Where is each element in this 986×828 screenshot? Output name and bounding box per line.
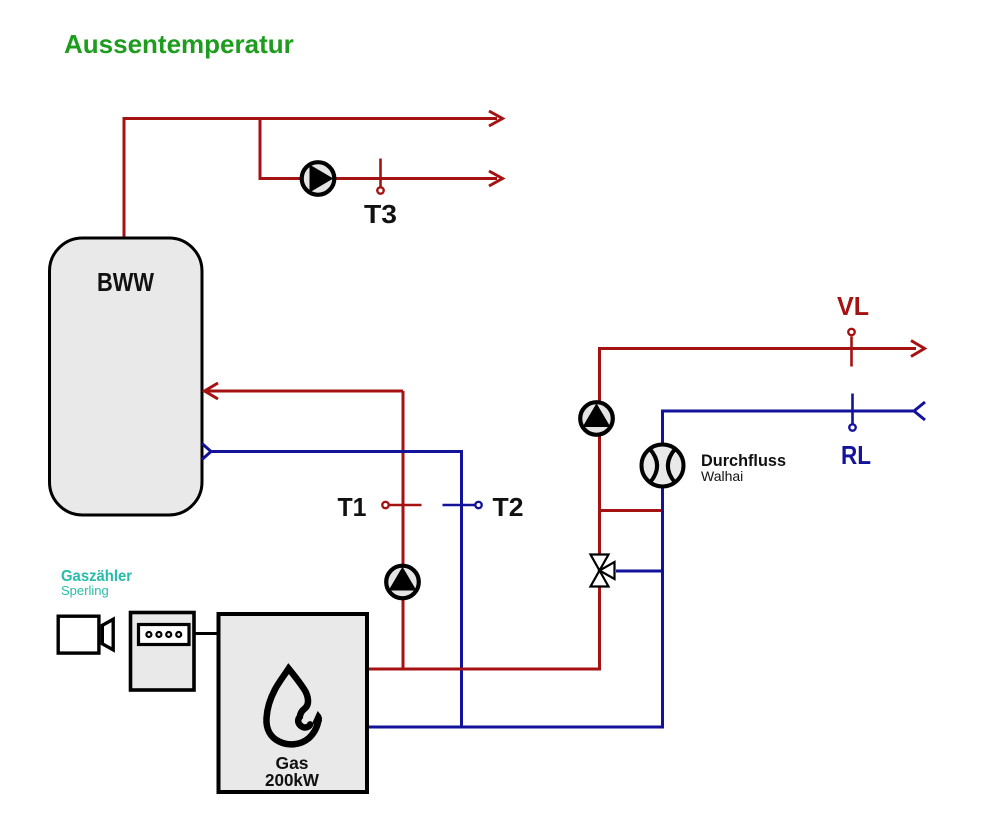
wire: gas meter to boiler: [194, 632, 218, 635]
svg-text:T3: T3: [364, 199, 397, 229]
svg-text:RL: RL: [841, 440, 871, 470]
wire: tank charge line (red into tank): [205, 390, 403, 393]
flame cusp: [313, 711, 322, 726]
camera icon: [58, 616, 113, 653]
svg-text:Sperling: Sperling: [61, 583, 109, 598]
valve V1 three-way: [591, 555, 615, 587]
pump P3 on second supply: [302, 162, 335, 195]
arrow: into tank: [205, 383, 219, 399]
arrow: second supply right: [489, 171, 503, 186]
arrow: top supply right: [489, 111, 503, 126]
wire: return RL line: [367, 411, 915, 727]
pump P2 on boiler riser: [580, 402, 613, 435]
sensor T2: [443, 502, 482, 508]
svg-text:Aussentemperatur: Aussentemperatur: [64, 29, 294, 59]
wire: valve stub blue: [616, 570, 663, 573]
arrow: RL fletch: [914, 402, 925, 420]
sensor T3: [377, 159, 383, 194]
wire: tank return (blue out of tank): [212, 452, 462, 728]
svg-text:BWW: BWW: [97, 267, 154, 297]
sensor VL: [848, 329, 854, 367]
wire: boiler supply bottom + riser + VL line: [367, 349, 916, 670]
pump P1 on red riser: [386, 566, 419, 599]
wire: BWW top supply pipe: [124, 119, 497, 239]
wire: branch to second supply: [260, 119, 497, 179]
svg-text:Walhai: Walhai: [701, 468, 743, 484]
svg-text:VL: VL: [837, 291, 869, 321]
sensor RL: [849, 394, 855, 431]
flame icon: [266, 669, 318, 745]
sensor T1: [382, 502, 421, 508]
flow meter Durchfluss: [642, 445, 684, 487]
svg-text:200kW: 200kW: [265, 770, 319, 790]
arrow: VL right: [911, 341, 925, 357]
arrow: out of tank: [202, 444, 211, 460]
svg-text:T2: T2: [493, 492, 524, 522]
wire: red riser from boiler to tank: [402, 391, 405, 669]
boiler Gas 200kW: [219, 614, 368, 792]
tank BWW: [50, 238, 203, 515]
svg-text:T1: T1: [338, 492, 367, 522]
gas meter M1: [131, 613, 195, 691]
wire: bypass red: [600, 509, 663, 512]
